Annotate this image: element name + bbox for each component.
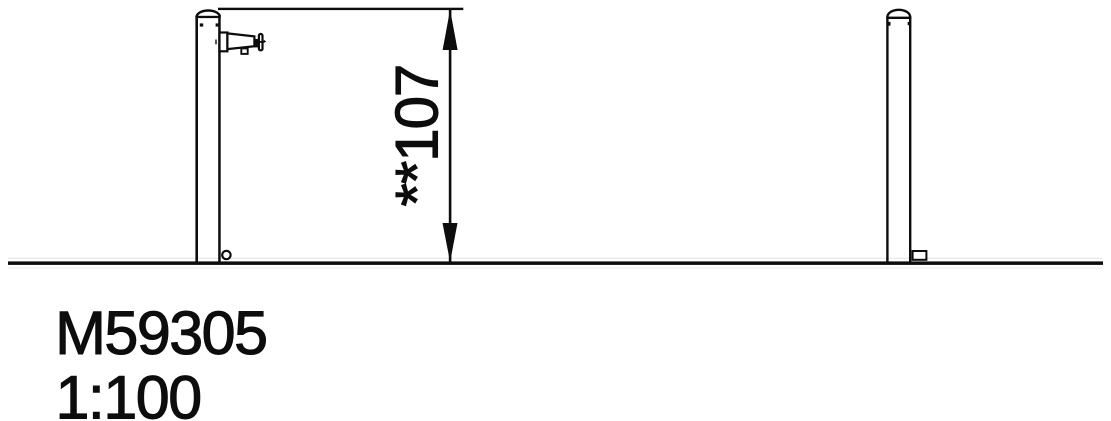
svg-text:M59305: M59305 bbox=[55, 299, 266, 367]
svg-text:1:100: 1:100 bbox=[56, 364, 201, 421]
svg-text:**107: **107 bbox=[384, 65, 451, 207]
